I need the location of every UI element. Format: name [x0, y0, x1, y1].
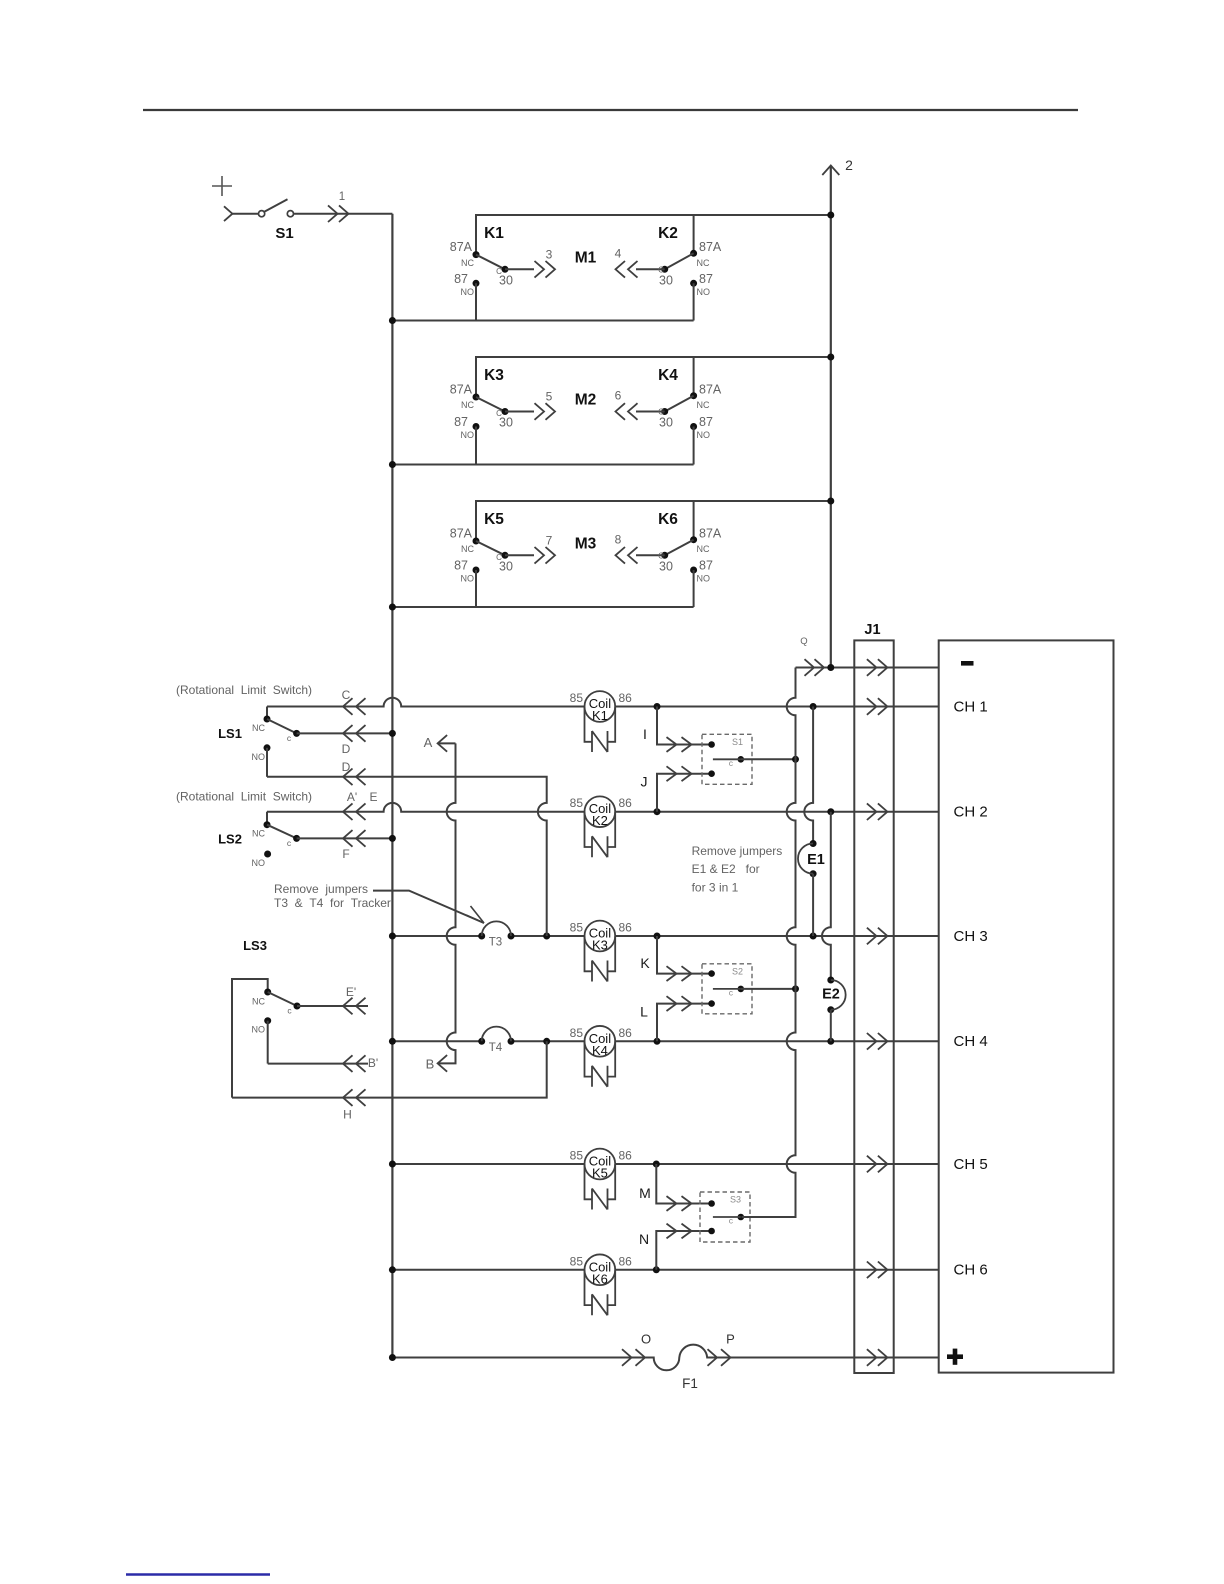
- svg-text:NO: NO: [697, 287, 711, 297]
- svg-text:J1: J1: [864, 622, 880, 638]
- svg-text:E: E: [369, 790, 377, 804]
- svg-text:8: 8: [615, 532, 622, 546]
- node junction rail bottom M2: [389, 461, 396, 468]
- svg-text:K4: K4: [658, 367, 678, 384]
- connector pin J1 (ch5 row): [878, 1156, 888, 1173]
- svg-text:85: 85: [570, 921, 584, 935]
- svg-text:S3: S3: [730, 1195, 741, 1205]
- node junction rail/positive row: [389, 1354, 396, 1361]
- svg-text:87A: 87A: [450, 383, 473, 397]
- coil K1 (relay coil): [570, 691, 633, 752]
- node junction rail/CH6: [389, 1266, 396, 1273]
- svg-text:5: 5: [546, 390, 553, 404]
- svg-text:NO: NO: [252, 752, 266, 762]
- wire H (LS3 to CH4): [232, 1041, 547, 1097]
- switch S1 (dashed remote switch): [702, 734, 752, 784]
- svg-text:85: 85: [570, 1254, 584, 1268]
- svg-text:K2: K2: [658, 225, 678, 242]
- wire D (LS1 NO to CH3): [267, 777, 547, 936]
- node junction CH1/E1: [810, 703, 817, 710]
- wire common bus (S1/S2/S3 commons): [742, 668, 796, 1218]
- node junction H/CH4: [543, 1038, 550, 1045]
- svg-text:CH 3: CH 3: [954, 928, 988, 945]
- svg-text:E1 & E2 for: E1 & E2 for: [692, 862, 760, 876]
- svg-text:87A: 87A: [699, 527, 722, 541]
- switch S2 (dashed remote switch): [702, 964, 752, 1014]
- label plus terminal: [947, 1354, 963, 1359]
- relay contact K1 (SPDT): [450, 240, 555, 320]
- switch S1: [259, 211, 265, 217]
- wire N: [656, 1231, 711, 1270]
- svg-text:for 3 in 1: for 3 in 1: [692, 880, 739, 894]
- wire M2 block top edge: [476, 357, 831, 397]
- svg-text:K4: K4: [592, 1043, 608, 1058]
- svg-text:87: 87: [454, 272, 468, 286]
- wire L: [657, 1004, 712, 1042]
- svg-text:Remove jumpers: Remove jumpers: [274, 882, 368, 896]
- svg-text:O: O: [641, 1332, 651, 1347]
- node junction rail/D: [389, 730, 396, 737]
- wire left supply rail: [391, 214, 393, 1358]
- svg-text:Q: Q: [800, 636, 807, 647]
- svg-text:CH 1: CH 1: [954, 698, 988, 715]
- limit switch LS3: [232, 938, 301, 1098]
- wire CH2 row: [267, 803, 939, 812]
- wire M1 block top edge: [476, 215, 831, 255]
- svg-text:86: 86: [619, 1026, 633, 1040]
- svg-text:NC: NC: [697, 544, 710, 554]
- svg-text:30: 30: [659, 273, 673, 287]
- wire F (LS2 common to rail): [297, 837, 393, 839]
- jumper E2: [822, 977, 846, 1014]
- svg-text:F1: F1: [682, 1376, 698, 1391]
- svg-text:(Rotational Limit Switch): (Rotational Limit Switch): [176, 790, 312, 804]
- node junction top rail M1: [827, 212, 834, 219]
- footer rule (blue): [126, 1573, 270, 1575]
- node junction rail bottom M1: [389, 317, 396, 324]
- svg-text:86: 86: [619, 796, 633, 810]
- wire CH5 row: [392, 1163, 938, 1165]
- svg-text:87: 87: [699, 415, 713, 429]
- svg-text:E': E': [346, 985, 356, 999]
- switch S3 (dashed remote switch): [700, 1192, 750, 1242]
- svg-text:L: L: [640, 1004, 648, 1020]
- wire D (LS1 common to rail): [297, 732, 393, 734]
- wire M: [656, 1164, 711, 1204]
- wire B&#39; (LS3 NO): [268, 1063, 368, 1065]
- limit switch LS2: [218, 812, 300, 868]
- relay contact K2 (SPDT): [616, 215, 722, 321]
- top rule: [143, 109, 1078, 111]
- svg-text:C: C: [342, 688, 351, 702]
- svg-text:M: M: [639, 1185, 651, 1201]
- load box (battery bank): [939, 640, 1114, 1372]
- svg-text:4: 4: [615, 246, 622, 260]
- wire S1 input stub: [232, 213, 258, 215]
- svg-text:87A: 87A: [699, 383, 722, 397]
- node junction CH4/L: [654, 1038, 661, 1045]
- svg-text:86: 86: [619, 1254, 633, 1268]
- svg-text:6: 6: [615, 389, 622, 403]
- svg-text:NC: NC: [252, 997, 265, 1007]
- wire negative row (Q): [796, 667, 939, 669]
- svg-text:86: 86: [619, 1149, 633, 1163]
- svg-text:NO: NO: [252, 858, 266, 868]
- relay contact K4 (SPDT): [616, 357, 722, 465]
- svg-text:NO: NO: [252, 1025, 266, 1035]
- svg-text:K5: K5: [592, 1166, 608, 1181]
- svg-text:D: D: [342, 760, 351, 774]
- relay contact K6 (SPDT): [616, 501, 722, 607]
- wire M1 block bottom: [392, 320, 693, 322]
- svg-text:CH 6: CH 6: [954, 1262, 988, 1279]
- wire K: [657, 936, 712, 974]
- svg-text:87: 87: [699, 272, 713, 286]
- wire S1 to left rail: [294, 213, 393, 215]
- svg-text:CH 4: CH 4: [954, 1033, 988, 1050]
- svg-text:85: 85: [570, 1026, 584, 1040]
- node 2 (up arrow): [830, 166, 832, 668]
- svg-text:LS3: LS3: [243, 938, 267, 953]
- svg-text:M3: M3: [575, 535, 597, 552]
- svg-text:J: J: [641, 774, 648, 790]
- node junction top rail M2: [827, 354, 834, 361]
- svg-text:3: 3: [546, 247, 553, 261]
- relay contact K3 (SPDT): [450, 383, 555, 465]
- node junction CH1/I: [654, 703, 661, 710]
- svg-text:87: 87: [454, 415, 468, 429]
- svg-text:T3 & T4 for Tracker: T3 & T4 for Tracker: [274, 896, 391, 910]
- node junction rail end on negative row: [827, 664, 834, 671]
- wire S2 common to bus: [741, 988, 796, 990]
- svg-text:87A: 87A: [699, 240, 722, 254]
- svg-text:A': A': [347, 790, 357, 804]
- svg-text:85: 85: [570, 1149, 584, 1163]
- wire CH2 to E2: [822, 812, 831, 980]
- svg-text:N: N: [639, 1231, 649, 1247]
- plus terminal symbol: [212, 185, 232, 187]
- connector pin J1 (minus row): [878, 659, 888, 676]
- limit switch LS1: [218, 707, 300, 777]
- svg-text:NO: NO: [697, 574, 711, 584]
- wire CH1 to E1: [804, 707, 813, 844]
- connector pin J1 (ch6 row): [878, 1262, 888, 1279]
- svg-text:85: 85: [570, 691, 584, 705]
- svg-text:M2: M2: [575, 392, 597, 409]
- node junction bus/S2: [792, 985, 799, 992]
- svg-text:B: B: [426, 1057, 435, 1072]
- leader arrow to T3: [373, 891, 484, 923]
- node junction CH3/K: [654, 933, 661, 940]
- svg-text:NC: NC: [461, 544, 474, 554]
- node junction CH4/E2: [827, 1038, 834, 1045]
- coil K2 (relay coil): [570, 796, 633, 857]
- svg-text:K: K: [640, 955, 650, 971]
- svg-text:87A: 87A: [450, 240, 473, 254]
- svg-text:NO: NO: [461, 430, 475, 440]
- svg-text:85: 85: [570, 796, 584, 810]
- svg-text:30: 30: [659, 559, 673, 573]
- coil K3 (relay coil): [570, 921, 633, 982]
- node junction rail/CH3: [389, 933, 396, 940]
- svg-text:NC: NC: [252, 829, 265, 839]
- coil K6 (relay coil): [570, 1254, 633, 1315]
- svg-text:30: 30: [499, 273, 513, 287]
- svg-text:7: 7: [546, 533, 553, 547]
- node junction top rail M3: [827, 498, 834, 505]
- svg-text:2: 2: [845, 157, 853, 173]
- svg-text:S2: S2: [732, 966, 743, 976]
- svg-text:NC: NC: [697, 258, 710, 268]
- wire CH4 row: [392, 1040, 938, 1042]
- svg-text:NO: NO: [697, 430, 711, 440]
- svg-text:Remove jumpers: Remove jumpers: [692, 844, 783, 858]
- svg-text:87: 87: [699, 559, 713, 573]
- wire E1 to CH3: [812, 874, 814, 936]
- node junction bus/S1: [792, 756, 799, 763]
- svg-text:K1: K1: [592, 708, 608, 723]
- coil K4 (relay coil): [570, 1026, 633, 1087]
- svg-text:K1: K1: [484, 225, 504, 242]
- svg-text:NC: NC: [697, 400, 710, 410]
- node junction CH6/N: [653, 1266, 660, 1273]
- wire E2 to CH4: [830, 1010, 832, 1042]
- svg-text:K2: K2: [592, 813, 608, 828]
- node junction D/CH3: [543, 933, 550, 940]
- svg-text:(Rotational Limit Switch): (Rotational Limit Switch): [176, 683, 312, 697]
- svg-text:87A: 87A: [450, 527, 473, 541]
- wire A to B: [438, 743, 456, 1063]
- wire M3 block top edge: [476, 501, 831, 541]
- wire CH1 row: [267, 698, 939, 707]
- connector pin J1 (plus row): [878, 1349, 888, 1366]
- svg-text:30: 30: [499, 416, 513, 430]
- connector pin J1 (ch1 row): [878, 698, 888, 715]
- node junction rail/CH5: [389, 1161, 396, 1168]
- coil K5 (relay coil): [570, 1149, 633, 1210]
- svg-text:LS1: LS1: [218, 726, 242, 741]
- jumper T3: [478, 921, 514, 948]
- svg-text:P: P: [726, 1332, 735, 1347]
- svg-text:NO: NO: [461, 287, 475, 297]
- svg-text:I: I: [643, 726, 647, 742]
- svg-text:NC: NC: [252, 723, 265, 733]
- svg-text:T4: T4: [489, 1042, 503, 1054]
- node junction CH2/J: [654, 808, 661, 815]
- connector pin J1 (ch2 row): [878, 803, 888, 820]
- svg-text:86: 86: [619, 921, 633, 935]
- svg-text:T3: T3: [489, 937, 502, 949]
- label minus terminal: [961, 661, 974, 666]
- svg-text:30: 30: [499, 559, 513, 573]
- svg-text:B': B': [368, 1056, 378, 1070]
- wire S1 common to bus: [741, 758, 796, 760]
- svg-text:K5: K5: [484, 511, 504, 528]
- svg-text:1: 1: [339, 191, 345, 203]
- svg-text:LS2: LS2: [218, 832, 242, 847]
- svg-text:D: D: [342, 742, 351, 756]
- svg-text:CH 5: CH 5: [954, 1156, 988, 1173]
- relay contact K5 (SPDT): [450, 527, 555, 608]
- svg-text:K3: K3: [484, 367, 504, 384]
- svg-text:E2: E2: [822, 987, 840, 1003]
- svg-text:F: F: [342, 847, 349, 861]
- wire positive row with fuse F1: [392, 1345, 938, 1371]
- svg-text:M1: M1: [575, 249, 597, 266]
- node junction CH2/E2: [827, 808, 834, 815]
- wire M3 block bottom: [392, 606, 693, 608]
- svg-text:S1: S1: [732, 737, 743, 747]
- svg-text:CH 2: CH 2: [954, 804, 988, 821]
- svg-text:30: 30: [659, 416, 673, 430]
- wire CH3 row: [392, 935, 938, 937]
- svg-text:A: A: [424, 735, 433, 750]
- connector J1: [854, 640, 893, 1373]
- wire M2 block bottom: [392, 464, 693, 466]
- connector pin J1 (ch3 row): [878, 928, 888, 945]
- jumper E1: [798, 840, 825, 877]
- node junction rail/F: [389, 835, 396, 842]
- svg-text:87: 87: [454, 559, 468, 573]
- wire I: [657, 707, 712, 745]
- node junction CH5/M: [653, 1161, 660, 1168]
- connector pin J1 (ch4 row): [878, 1033, 888, 1050]
- wire CH6 row: [392, 1269, 938, 1271]
- svg-text:K3: K3: [592, 938, 608, 953]
- node junction rail/CH4: [389, 1038, 396, 1045]
- svg-text:K6: K6: [592, 1271, 608, 1286]
- node junction rail bottom M3: [389, 604, 396, 611]
- svg-text:NC: NC: [461, 258, 474, 268]
- svg-text:NC: NC: [461, 400, 474, 410]
- node junction CH3/E1: [810, 933, 817, 940]
- node B (off-page arrow): [438, 1055, 448, 1072]
- svg-text:S1: S1: [275, 225, 293, 242]
- svg-text:H: H: [343, 1108, 352, 1122]
- svg-text:NO: NO: [461, 574, 475, 584]
- wire J: [657, 774, 712, 812]
- node A (off-page arrow): [438, 742, 456, 744]
- svg-text:86: 86: [619, 691, 633, 705]
- wire E&#39; (LS3 common): [297, 1005, 368, 1007]
- jumper T4: [478, 1027, 514, 1054]
- svg-text:K6: K6: [658, 511, 678, 528]
- svg-text:E1: E1: [807, 852, 825, 868]
